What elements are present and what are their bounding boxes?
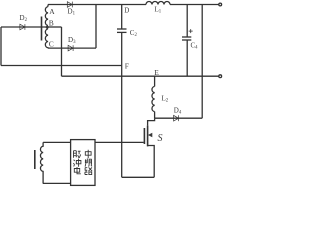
- wire top rail right segment: [170, 4, 219, 6]
- wire feedback winding bottom to box: [43, 182, 71, 184]
- wire W2 output to terminal: [62, 75, 220, 77]
- svg-text:S: S: [158, 133, 163, 144]
- wire top rail left segment: [48, 4, 146, 6]
- wire bottom rail: [122, 176, 155, 178]
- transformer winding A-B (secondary upper): [45, 7, 48, 26]
- transformer core bar: [41, 17, 43, 41]
- wire feedback winding top to box: [43, 141, 71, 143]
- diode D2: [20, 24, 25, 30]
- svg-text:C2: C2: [130, 29, 138, 38]
- svg-text:F: F: [125, 62, 129, 71]
- svg-text:D2: D2: [20, 14, 28, 23]
- box text char 路 (row3 col2): [85, 167, 92, 174]
- capacitor C4 branch lower wire: [186, 40, 188, 76]
- node B junction dot: [46, 26, 49, 29]
- control box: [71, 140, 95, 186]
- transistor S channel bar: [147, 126, 149, 147]
- svg-text:A: A: [49, 7, 55, 16]
- inductor L2 upper stub: [154, 76, 156, 86]
- wire B tap vertical down to output wire: [61, 27, 63, 76]
- wire A corner: [47, 5, 49, 7]
- svg-text:E: E: [154, 68, 159, 77]
- wire left rail: [0, 27, 2, 66]
- wire C to rectifier junction: [48, 47, 96, 49]
- capacitor C4 branch upper wire: [186, 5, 188, 38]
- svg-text:D1: D1: [68, 8, 76, 17]
- box text char 中 (row1 col2): [85, 150, 91, 158]
- wire B tap horizontal: [47, 26, 61, 28]
- feedback winding: [40, 142, 43, 183]
- svg-text:C4: C4: [191, 42, 199, 51]
- wire rectifier junction vertical: [95, 5, 97, 49]
- svg-text:D3: D3: [68, 36, 76, 45]
- inductor L2: [152, 86, 155, 111]
- wire drain step: [148, 118, 155, 125]
- inductor L2 lower stub: [154, 112, 156, 119]
- diode D3: [68, 45, 73, 51]
- wire left input to B: [1, 26, 46, 28]
- svg-text:L1: L1: [155, 5, 162, 14]
- wire C2 down through F to bottom rail: [121, 32, 123, 177]
- capacitor C2: [117, 29, 127, 32]
- wire node D down to capacitor C2: [121, 5, 123, 30]
- box text char 频 (row2 col2): [85, 159, 92, 167]
- transistor S arrow: [148, 133, 152, 137]
- wire gate drive: [95, 141, 144, 143]
- box text char 电 (row3 col1): [74, 167, 81, 174]
- capacitor C4: [182, 37, 191, 40]
- output terminal + (top right): [219, 3, 222, 6]
- inductor L1: [146, 2, 170, 5]
- wire right rail (node D to D4 cathode): [201, 5, 203, 119]
- diode D1: [67, 2, 72, 8]
- wire source: [148, 146, 155, 178]
- diode D4: [174, 115, 179, 121]
- svg-text:B: B: [49, 18, 54, 27]
- output terminal - (bottom right): [219, 75, 222, 78]
- box text char 脉 (row1 col1): [74, 151, 81, 158]
- svg-text:C: C: [49, 39, 54, 48]
- capacitor C4 polarity plus: [189, 29, 193, 33]
- svg-text:D: D: [124, 7, 129, 15]
- box text char 冲 (row2 col1): [73, 159, 81, 167]
- wire D4 anode: [155, 117, 203, 119]
- transformer winding B-C (secondary lower): [45, 29, 48, 48]
- svg-text:L2: L2: [162, 94, 169, 103]
- wire W1 to node F: [1, 65, 122, 67]
- transistor S gate bar: [143, 128, 145, 144]
- svg-text:D4: D4: [174, 106, 182, 115]
- feedback winding core bar: [34, 150, 36, 169]
